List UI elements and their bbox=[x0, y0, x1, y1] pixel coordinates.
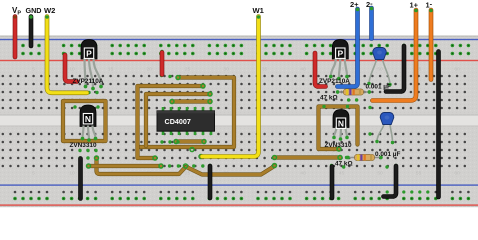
main hole grid bottom bank bbox=[2, 133, 467, 168]
wire end rings bbox=[87, 76, 343, 169]
wire brown elbow h3 bbox=[146, 94, 210, 146]
wire W2 yellow bbox=[47, 17, 87, 93]
svg-text:1+: 1+ bbox=[410, 1, 419, 10]
svg-text:N: N bbox=[85, 114, 91, 124]
svg-text:ZVP2110A: ZVP2110A bbox=[319, 78, 350, 85]
top rail blue line bbox=[0, 39, 478, 40]
wire black elbow bottom right bbox=[384, 166, 397, 197]
svg-text:60: 60 bbox=[454, 171, 460, 177]
svg-text:25: 25 bbox=[185, 67, 191, 73]
faint column numbers bbox=[32, 67, 460, 177]
svg-text:5: 5 bbox=[32, 67, 35, 73]
svg-text:40: 40 bbox=[300, 67, 306, 73]
wire 2- blue bbox=[369, 8, 374, 39]
bottom rail red line bbox=[0, 204, 478, 205]
svg-text:W2: W2 bbox=[44, 6, 55, 15]
breadboard body bbox=[0, 36, 478, 207]
svg-text:0.001 µF: 0.001 µF bbox=[375, 151, 400, 158]
svg-text:47 kΩ: 47 kΩ bbox=[320, 95, 338, 102]
wire brown elbow h2 bbox=[138, 86, 204, 158]
svg-text:0.001 µF: 0.001 µF bbox=[366, 84, 391, 91]
wire 1+ orange bbox=[373, 10, 417, 101]
wire red stub mid bbox=[160, 53, 165, 75]
svg-text:10: 10 bbox=[69, 171, 75, 177]
wire brown h4 bbox=[172, 99, 210, 103]
wire 1- orange bbox=[429, 10, 434, 80]
svg-text:50: 50 bbox=[377, 171, 383, 177]
svg-text:50: 50 bbox=[377, 67, 383, 73]
wire 2+ blue bbox=[338, 9, 358, 87]
top rail red line bbox=[0, 60, 478, 61]
wire top end dots bbox=[13, 7, 432, 19]
svg-text:2+: 2+ bbox=[350, 0, 359, 9]
svg-text:2-: 2- bbox=[366, 0, 373, 9]
svg-text:40: 40 bbox=[300, 171, 306, 177]
wire black vertical 2 bbox=[208, 166, 213, 198]
wire brown short A bbox=[89, 164, 162, 168]
capacitor C2 0.001uF bbox=[377, 124, 384, 142]
svg-text:25: 25 bbox=[185, 171, 191, 177]
svg-text:W1: W1 bbox=[253, 6, 265, 15]
wire brown under IC bbox=[176, 139, 204, 143]
capacitor C1 0.001uF bbox=[369, 59, 377, 84]
svg-text:55: 55 bbox=[416, 171, 422, 177]
wire black long right bbox=[436, 52, 441, 198]
main hole grid top bank bbox=[2, 75, 467, 110]
wire VP red bbox=[13, 17, 18, 58]
transistor Q1 ZVP2110A left bbox=[81, 40, 97, 60]
svg-text:35: 35 bbox=[262, 67, 268, 73]
resistor R2 47k bbox=[348, 157, 381, 159]
wire brown frame around Q4 ZVN3310 right bbox=[319, 107, 358, 150]
transistor Q3 ZVN3310 left bbox=[80, 105, 96, 127]
svg-text:CD4007: CD4007 bbox=[165, 117, 191, 126]
top rail holes bbox=[13, 44, 470, 56]
wire brown rectangle around Q3 ZVN3310 left bbox=[63, 101, 106, 141]
wire W1 yellow bbox=[202, 17, 259, 157]
svg-text:ZVN3310: ZVN3310 bbox=[70, 142, 97, 149]
svg-text:60: 60 bbox=[454, 67, 460, 73]
IC U1 CD4007 bbox=[157, 107, 215, 135]
wire brown top loop over CD4007 bbox=[138, 78, 234, 148]
wire GND black bbox=[29, 17, 34, 47]
svg-text:1-: 1- bbox=[426, 0, 433, 10]
svg-text:45: 45 bbox=[339, 171, 345, 177]
wire red jumper left bbox=[65, 55, 77, 82]
svg-text:20: 20 bbox=[146, 67, 152, 73]
connected hole green dots bbox=[63, 37, 440, 169]
svg-text:30: 30 bbox=[223, 67, 229, 73]
wire black vertical 1 bbox=[78, 159, 83, 199]
svg-text:10: 10 bbox=[69, 67, 75, 73]
wire brown long low left bbox=[97, 159, 186, 175]
resistor R1 47k bbox=[338, 91, 370, 93]
transistor Q4 ZVN3310 right bbox=[333, 110, 349, 128]
svg-text:N: N bbox=[338, 119, 344, 129]
bottom rail holes bbox=[13, 190, 470, 200]
wire brown mid right bbox=[275, 155, 341, 159]
wire black jumper top right bbox=[386, 46, 404, 92]
bottom rail blue line bbox=[0, 184, 478, 185]
svg-text:P: P bbox=[337, 49, 343, 59]
svg-text:5: 5 bbox=[32, 171, 35, 177]
wire black vertical 3 bbox=[330, 167, 335, 199]
svg-text:GND: GND bbox=[26, 6, 42, 15]
wire red jumper right bbox=[315, 53, 326, 87]
svg-text:47 kΩ: 47 kΩ bbox=[335, 161, 353, 168]
center channel bbox=[0, 115, 478, 127]
svg-text:15: 15 bbox=[108, 67, 114, 73]
svg-text:ZVN3310: ZVN3310 bbox=[325, 142, 352, 149]
svg-text:ZVP2110A: ZVP2110A bbox=[73, 78, 104, 85]
transistor Q2 ZVP2110A right bbox=[332, 40, 348, 60]
wire brown long low right bbox=[187, 166, 275, 175]
svg-text:P: P bbox=[86, 49, 92, 59]
